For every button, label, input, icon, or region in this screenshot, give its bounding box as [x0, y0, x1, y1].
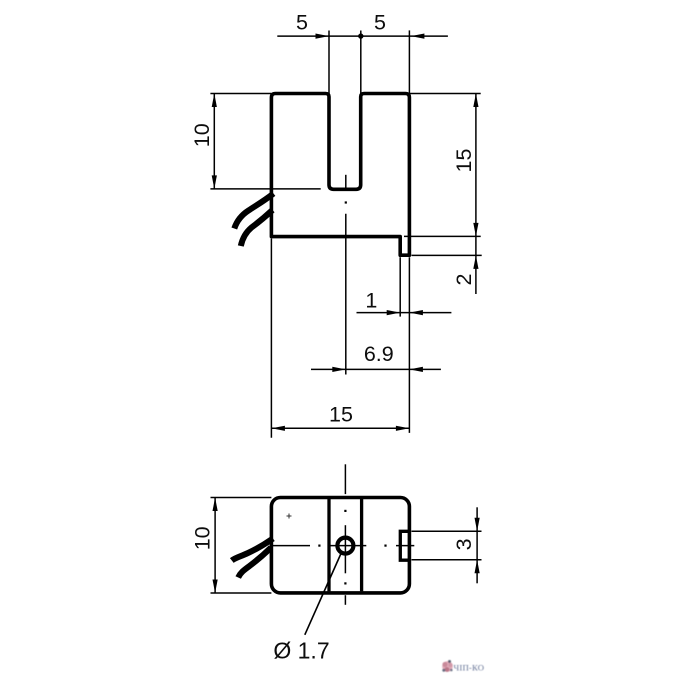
wire upper (front): [234, 194, 273, 229]
dim 10 bottom-left: bottom extension: [211, 592, 272, 594]
svg-text:15: 15: [452, 149, 476, 173]
dim 2: bottom extension: [412, 254, 482, 256]
wire upper (bottom view): [232, 539, 273, 561]
svg-text:Ø 1.7: Ø 1.7: [273, 637, 329, 663]
dim 10 front-left: top extension: [210, 93, 271, 95]
ext line slot-left up: [328, 31, 330, 94]
svg-text:5: 5: [374, 10, 386, 34]
bottom view wall left: [327, 499, 330, 591]
dim 6.9: dimension line: [311, 368, 441, 370]
svg-text:2: 2: [452, 274, 476, 286]
dim 15 bottom: dimension line: [271, 427, 409, 429]
dim 15 front-right: dimension line: [475, 94, 477, 237]
svg-text:10: 10: [191, 526, 215, 550]
dot at slot-right ext: [358, 33, 363, 38]
svg-text:10: 10: [190, 123, 214, 147]
dim 3: top extension: [412, 530, 482, 532]
hole circle: [337, 538, 353, 554]
bottom view vertical centerline: [344, 464, 346, 494]
dim 1: dimension line: [357, 312, 452, 314]
wire lower (front): [241, 210, 273, 246]
bottom view wall right: [360, 499, 363, 591]
dim 1: ext line tab-left: [399, 257, 401, 316]
dim 3: bottom extension: [412, 559, 482, 561]
front centerline dot: [345, 201, 347, 203]
dim 10 bottom-left: dimension line: [214, 498, 216, 594]
svg-text:15: 15: [329, 403, 353, 427]
dim 3: dimension line + outside arrows: [476, 507, 478, 583]
front view body outline: [271, 94, 409, 256]
watermark flower: [442, 660, 453, 672]
ext line body-right up: [408, 30, 410, 93]
leader line to hole: [305, 554, 341, 635]
dim 10 front-left: dimension line: [213, 94, 215, 189]
ext line slot-right up: [360, 31, 362, 94]
dim 15 front-right: bottom extension: [404, 235, 481, 237]
small plus mark: [287, 514, 292, 519]
front centerline upper dash: [345, 175, 347, 189]
bottom view body: [271, 498, 409, 593]
dim 10 bottom-left: top extension: [211, 497, 272, 499]
svg-text:3: 3: [452, 538, 476, 550]
arrow at body-right ext (points left): [411, 34, 425, 39]
dim 15 bottom: left extension: [270, 239, 272, 438]
dim 2: lower arrow pointing up: [475, 255, 477, 294]
dim 10 front-left: bottom extension: [210, 188, 320, 190]
arrow at slot-left ext (points right): [316, 34, 330, 39]
svg-text:1: 1: [365, 288, 377, 312]
svg-text:6.9: 6.9: [364, 342, 394, 366]
svg-text:ЧІП-КО: ЧІП-КО: [454, 663, 485, 673]
front centerline lower dash / 6.9 extension: [345, 214, 347, 375]
dim 1: ext line body-right (shared with 6.9 and 15): [408, 257, 410, 433]
dim 2: dimension segment: [475, 236, 477, 255]
bottom view horizontal centerline: [273, 545, 311, 547]
dim 15 front-right: top extension: [409, 93, 480, 95]
wire lower (bottom view): [238, 548, 271, 578]
dim 5/5 top: dimension line: [277, 35, 448, 37]
bottom view tab: [400, 531, 409, 560]
svg-text:5: 5: [296, 10, 308, 34]
